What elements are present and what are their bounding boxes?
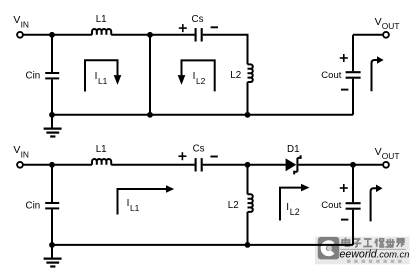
inductor L2 (top circuit) — [248, 64, 253, 82]
ground (top circuit) — [44, 115, 62, 137]
capacitor Cs (top circuit) — [196, 28, 202, 41]
wire VIN to L1 (bottom circuit) — [23, 164, 92, 166]
svg-text:Cs: Cs — [193, 143, 205, 154]
polarity - for Cs (top circuit) — [211, 26, 218, 28]
polarity - for Cout (bottom circuit) — [341, 219, 348, 221]
terminal VIN (top circuit) — [17, 32, 23, 38]
inductor L1 (top circuit) — [92, 29, 111, 35]
svg-text:I: I — [127, 198, 130, 209]
svg-text:Cout: Cout — [321, 200, 341, 211]
polarity + for Cs (bottom circuit) — [178, 152, 186, 160]
svg-text:L1: L1 — [98, 76, 108, 86]
svg-text:IN: IN — [21, 150, 29, 160]
terminal VOUT (bottom circuit) — [383, 162, 389, 168]
label VOUT (bottom circuit) — [375, 146, 400, 161]
svg-text:OUT: OUT — [382, 21, 400, 31]
label L2 (bottom circuit) — [228, 200, 239, 211]
wire VIN to L1 (top rail left) — [23, 34, 92, 36]
watermark eeworld.com.cn — [340, 249, 410, 261]
terminal VIN (bottom circuit) — [17, 162, 23, 168]
label D1 (bottom circuit) — [287, 144, 300, 155]
label Cs (bottom circuit) — [193, 143, 205, 154]
label Cs (top circuit) — [192, 14, 204, 25]
svg-text:IN: IN — [21, 20, 29, 30]
svg-text:I: I — [193, 71, 196, 82]
label L2 (top circuit) — [230, 70, 241, 81]
node dot switch top (top circuit) — [147, 32, 153, 38]
svg-text:I: I — [95, 71, 98, 82]
wire L1 to Cs (top rail mid) — [111, 34, 194, 36]
load current arrow (top circuit) — [372, 56, 384, 91]
wire Cs to corner and down to L2 (top rail right) — [203, 35, 248, 65]
ground (bottom circuit) — [44, 245, 62, 267]
label VIN (bottom circuit) — [13, 144, 29, 160]
node dot L2 top (bottom circuit) — [245, 162, 251, 168]
wire Cs to D1 with L2 tap (bottom circuit) — [203, 164, 286, 166]
node dot ground (top circuit) — [49, 112, 55, 118]
polarity + for Cout (bottom circuit) — [340, 184, 348, 192]
svg-text:Cs: Cs — [192, 14, 204, 25]
svg-text:eeworld.com.cn: eeworld.com.cn — [340, 249, 410, 261]
label IL1 (top circuit) — [95, 71, 108, 86]
node dot Cout top (bottom circuit) — [350, 162, 356, 168]
capacitor Cs (bottom circuit) — [196, 158, 202, 171]
bottom rail (bottom circuit) — [52, 244, 353, 246]
capacitor Cout (top circuit) — [346, 35, 361, 115]
wire Cout to VOUT terminal (top circuit) — [353, 34, 382, 36]
label L1 (bottom circuit) — [96, 144, 107, 155]
label IL1 (bottom circuit) — [127, 198, 140, 213]
svg-text:Cout: Cout — [321, 70, 341, 81]
svg-text:Cin: Cin — [26, 71, 41, 82]
current loop arrow IL1 (top circuit) — [85, 60, 121, 91]
watermark logo C — [318, 237, 340, 260]
svg-text:L1: L1 — [130, 203, 140, 213]
bottom rail (top circuit) — [52, 114, 353, 116]
svg-text:V: V — [13, 14, 20, 26]
svg-text:OUT: OUT — [382, 151, 400, 161]
inductor L1 (bottom circuit) — [92, 159, 111, 165]
capacitor Cin (bottom circuit) — [45, 165, 59, 245]
watermark eeworld box — [315, 237, 410, 265]
svg-text:V: V — [375, 16, 382, 28]
svg-text:Cin: Cin — [26, 201, 41, 212]
node dot ground (bottom circuit) — [49, 242, 55, 248]
label VOUT (top circuit) — [375, 16, 400, 31]
node dot Cin top (top circuit) — [49, 32, 55, 38]
terminal VOUT (top circuit) — [383, 32, 389, 38]
diode D1 (bottom circuit, schottky) — [286, 155, 301, 174]
node dot L2 bottom (bottom circuit) — [245, 242, 251, 248]
node dot L2 bottom (top circuit) — [245, 112, 251, 118]
label Cin (top circuit) — [26, 71, 41, 82]
svg-text:L2: L2 — [230, 70, 241, 81]
inductor L2 (bottom circuit) — [248, 165, 253, 245]
label Cout (top circuit) — [321, 70, 341, 81]
svg-text:L2: L2 — [196, 76, 206, 86]
svg-text:V: V — [375, 146, 382, 158]
polarity + for Cout (top circuit) — [340, 54, 348, 62]
label Cin (bottom circuit) — [26, 201, 41, 212]
watermark separator line — [340, 248, 406, 250]
capacitor Cout (bottom circuit) — [346, 165, 361, 245]
polarity - for Cout (top circuit) — [341, 89, 348, 91]
polarity + for Cs (top circuit) — [179, 24, 187, 32]
wire L1 to Cs (bottom circuit) — [111, 164, 194, 166]
watermark small tagline — [347, 260, 402, 263]
svg-text:I: I — [286, 202, 289, 213]
svg-text:L1: L1 — [96, 144, 107, 155]
label VIN (top circuit) — [13, 14, 29, 30]
load current arrow (bottom circuit) — [371, 185, 383, 222]
label IL2 (bottom circuit) — [286, 202, 299, 217]
watermark chinese title 电子工程世界 — [342, 238, 404, 247]
wire D1 to VOUT (bottom circuit) — [298, 164, 382, 166]
wire L2 to bottom rail (top circuit) — [247, 82, 249, 115]
svg-text:D1: D1 — [287, 144, 300, 155]
svg-text:L1: L1 — [96, 14, 107, 25]
node dot switch bottom (top circuit) — [147, 112, 153, 118]
svg-text:L2: L2 — [290, 207, 300, 217]
current arrow IL2 (bottom circuit) — [280, 184, 309, 221]
svg-text:V: V — [13, 144, 20, 156]
label IL2 (top circuit) — [193, 71, 206, 86]
current arrow IL1 (bottom circuit) — [118, 185, 175, 214]
svg-text:L2: L2 — [228, 200, 239, 211]
node dot Cin top (bottom circuit) — [49, 162, 55, 168]
capacitor Cin (top circuit) — [45, 35, 59, 115]
label L1 (top circuit) — [96, 14, 107, 25]
polarity - for Cs (bottom circuit) — [210, 156, 217, 158]
wire switch branch (top circuit, vertical at x=150) — [149, 35, 151, 115]
label Cout (bottom circuit) — [321, 200, 341, 211]
current loop arrow IL2 (top circuit) — [178, 60, 215, 91]
